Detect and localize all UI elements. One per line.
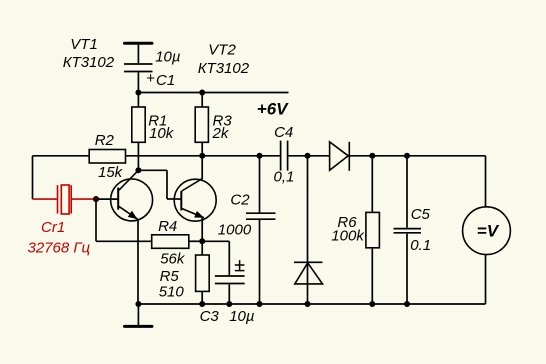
svg-text:R4: R4 [158,218,177,235]
svg-text:R2: R2 [95,132,115,149]
svg-text:+6V: +6V [257,99,289,118]
svg-text:100k: 100k [331,228,365,245]
svg-text:510: 510 [159,283,185,300]
svg-text:VT1: VT1 [70,36,98,53]
svg-text:Cr1: Cr1 [41,219,65,236]
svg-text:1000: 1000 [218,222,252,239]
svg-text:=V: =V [477,221,500,240]
svg-text:10k: 10k [149,125,175,142]
svg-text:C5: C5 [411,206,431,223]
svg-text:КТ3102: КТ3102 [63,54,115,71]
svg-text:10µ: 10µ [229,308,254,325]
svg-text:0,1: 0,1 [274,169,295,186]
svg-text:32768 Гц: 32768 Гц [28,240,91,257]
svg-text:VT2: VT2 [208,42,236,59]
svg-text:КТ3102: КТ3102 [198,60,250,77]
svg-text:C4: C4 [274,124,293,141]
svg-text:2k: 2k [212,125,230,142]
svg-text:C3: C3 [200,308,220,325]
svg-text:C2: C2 [230,192,250,209]
svg-text:56k: 56k [160,250,186,267]
svg-text:10µ: 10µ [155,49,180,66]
svg-text:+: + [146,70,155,87]
svg-text:C1: C1 [156,72,175,89]
svg-text:0.1: 0.1 [410,237,431,254]
svg-text:15k: 15k [98,164,124,181]
